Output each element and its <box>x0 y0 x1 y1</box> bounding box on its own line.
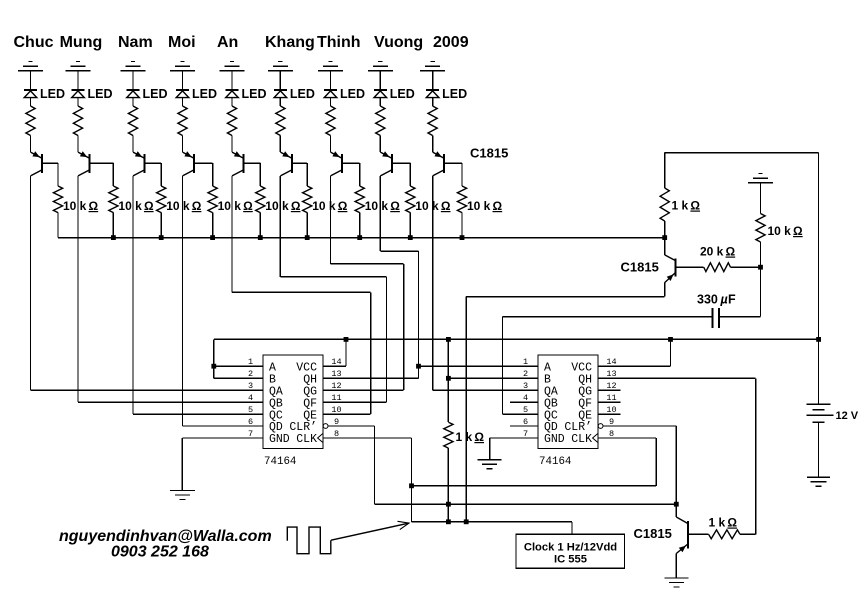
wire resistor to transistor Q3 <box>132 136 134 153</box>
wire resistor to transistor Q6 <box>279 136 281 153</box>
resistor 10k base channel 4 <box>208 186 217 213</box>
wire power to LED D3 <box>132 71 134 90</box>
svg-text:VCC: VCC <box>296 361 317 374</box>
wire resistor to bus channel 9 <box>461 213 463 238</box>
wire base Q9 to resistor <box>444 163 462 186</box>
label 10k channel 2 <box>118 199 154 213</box>
wire LED to resistor channel 2 <box>77 98 79 106</box>
svg-text:1 kΩ: 1 kΩ <box>456 430 485 444</box>
svg-text:10 kΩ: 10 kΩ <box>265 199 301 213</box>
wire collector Q1 to IC1 QA <box>31 176 264 390</box>
resistor R11 1k pullup <box>660 153 669 238</box>
label C1815 Q9 <box>470 146 508 161</box>
wire LED to resistor channel 7 <box>330 98 332 106</box>
svg-text:20 kΩ: 20 kΩ <box>700 245 736 259</box>
svg-text:11: 11 <box>331 393 341 403</box>
node label Vuong <box>374 34 423 51</box>
wire resistor to bus channel 3 <box>160 213 162 238</box>
wire resistor to bus channel 6 <box>306 213 308 238</box>
svg-text:3: 3 <box>248 381 253 391</box>
wire base Q7 to resistor <box>342 163 360 186</box>
resistor 10k base channel 6 <box>303 186 312 213</box>
wire top supply line <box>665 153 819 405</box>
resistor series channel 8 <box>376 106 385 136</box>
svg-text:2009: 2009 <box>433 34 469 51</box>
wire IC2 VCC to rail <box>598 339 671 366</box>
annotation arrow to clock input <box>331 521 409 540</box>
resistor 10k base channel 1 <box>53 186 62 213</box>
label 10k channel 8 <box>415 199 451 213</box>
svg-text:1 kΩ: 1 kΩ <box>709 516 738 530</box>
power symbol channel 3 <box>121 62 146 71</box>
wire clock input net <box>412 519 573 524</box>
resistor 10k base channel 7 <box>355 186 364 213</box>
svg-text:10 kΩ: 10 kΩ <box>166 199 202 213</box>
wire LED to resistor channel 4 <box>182 98 184 106</box>
node label Thinh <box>317 34 361 51</box>
author phone text <box>111 544 209 561</box>
LED D2 <box>72 90 85 98</box>
svg-text:Thinh: Thinh <box>317 34 361 51</box>
wire IC1 CLR to clock net <box>328 426 375 504</box>
wire resistor to transistor Q5 <box>231 136 233 153</box>
svg-text:10 kΩ: 10 kΩ <box>365 199 401 213</box>
resistor R13 10k <box>756 183 765 268</box>
svg-text:330: 330 <box>697 293 718 307</box>
wire stub IC2 QD <box>510 425 538 427</box>
svg-text:Moi: Moi <box>168 34 196 51</box>
wire base Q2 to resistor <box>90 163 114 186</box>
LED label D6 <box>290 87 315 101</box>
node label Chuc <box>14 34 54 51</box>
svg-text:0903 252 168: 0903 252 168 <box>111 544 209 561</box>
wire base Q1 to resistor <box>42 163 58 186</box>
wire base Q8 to resistor <box>392 163 411 186</box>
transistor Q3 <box>133 151 145 176</box>
LED label D4 <box>192 87 217 101</box>
wire resistor to bus channel 2 <box>112 213 114 238</box>
wire Q10 base to 20k <box>676 266 704 268</box>
wire power to LED D5 <box>231 71 233 90</box>
power symbol channel 1 <box>18 62 43 71</box>
power symbol channel 9 <box>420 62 445 71</box>
label R13 10k <box>768 224 804 238</box>
ground battery <box>807 477 830 486</box>
svg-text:2: 2 <box>248 369 253 379</box>
wire junction to capacitor <box>719 267 761 316</box>
wire stub IC2 QF <box>598 401 621 403</box>
svg-text:10 kΩ: 10 kΩ <box>218 199 254 213</box>
power symbol channel 7 <box>318 62 343 71</box>
wire IC1 CLK to clock net <box>323 438 414 522</box>
svg-text:1: 1 <box>248 357 253 367</box>
wire LED to resistor channel 1 <box>30 98 32 106</box>
wire IC2 B to rail via 1k tap <box>446 376 538 381</box>
wire stub IC2 QB <box>510 401 538 403</box>
wire rail to IC1 A B <box>211 339 263 378</box>
LED D5 <box>226 90 239 98</box>
svg-text:GND: GND <box>269 433 290 446</box>
svg-text:LED: LED <box>242 87 267 101</box>
transistor Q7 <box>331 151 343 176</box>
wire resistor to transistor Q8 <box>379 136 381 153</box>
wire resistor to transistor Q2 <box>77 136 79 153</box>
wire clock box feed <box>571 522 573 534</box>
transistor Q6 <box>280 151 292 176</box>
resistor series channel 6 <box>276 106 285 136</box>
svg-text:6: 6 <box>248 417 253 427</box>
svg-text:LED: LED <box>40 87 65 101</box>
clock source box <box>516 534 625 568</box>
LED D9 <box>426 90 439 98</box>
LED label D5 <box>242 87 267 101</box>
transistor Q2 <box>78 151 90 176</box>
svg-text:CLK: CLK <box>296 433 317 446</box>
wire LED to resistor channel 3 <box>132 98 134 106</box>
wire power to LED D9 <box>432 71 434 90</box>
node label Moi <box>168 34 196 51</box>
wire resistor to transistor Q1 <box>30 136 32 153</box>
wire capacitor to IC2 QC <box>503 316 713 318</box>
wire stub IC2 QE <box>598 413 621 415</box>
wire base Q6 to resistor <box>292 163 307 186</box>
transistor Q8 <box>380 151 392 176</box>
LED D4 <box>176 90 189 98</box>
svg-text:Mung: Mung <box>60 34 103 51</box>
power symbol right <box>748 174 773 183</box>
label 10k channel 4 <box>218 199 254 213</box>
transistor Q5 <box>232 151 244 176</box>
svg-text:GND: GND <box>544 433 565 446</box>
svg-text:LED: LED <box>340 87 365 101</box>
resistor 10k base channel 5 <box>256 186 265 213</box>
wire 1k to IC2 QH line <box>740 533 756 535</box>
resistor series channel 9 <box>428 106 437 136</box>
power symbol channel 5 <box>220 62 245 71</box>
svg-text:F: F <box>728 293 736 307</box>
wire IC2 CLK to clock net <box>598 438 656 486</box>
wire IC1 QH to IC2 A <box>416 364 538 369</box>
resistor 10k base channel 8 <box>406 186 415 213</box>
svg-text:LED: LED <box>290 87 315 101</box>
wire collector Q4 to IC1 QD <box>183 176 264 426</box>
wire base Q4 to resistor <box>194 163 213 186</box>
LED label D2 <box>88 87 113 101</box>
wire base Q3 to resistor <box>145 163 162 186</box>
wire Q10 emitter to clock input <box>466 297 665 522</box>
resistor R10 1k <box>444 339 453 521</box>
svg-text:10 kΩ: 10 kΩ <box>467 199 503 213</box>
wire collector Q2 to IC1 QB <box>78 176 263 402</box>
wire stub IC2 QG <box>598 389 621 391</box>
svg-text:Chuc: Chuc <box>14 34 54 51</box>
power symbol channel 4 <box>170 62 195 71</box>
wire resistor to bus channel 7 <box>359 213 361 238</box>
transistor Q1 <box>31 151 43 176</box>
svg-text:LED: LED <box>88 87 113 101</box>
resistor 10k base channel 3 <box>157 186 166 213</box>
wire resistor to transistor Q9 <box>432 136 434 153</box>
LED label D7 <box>340 87 365 101</box>
wire base Q5 to resistor <box>244 163 261 186</box>
svg-text:10 kΩ: 10 kΩ <box>118 199 154 213</box>
resistor 10k base channel 2 <box>109 186 118 213</box>
resistor series channel 1 <box>26 106 35 136</box>
wire IC2 CLR to clock net <box>603 426 676 504</box>
LED D1 <box>24 90 37 98</box>
svg-text:74164: 74164 <box>539 456 571 468</box>
transistor Q4 <box>183 151 195 176</box>
svg-text:1: 1 <box>523 357 528 367</box>
power symbol channel 6 <box>268 62 293 71</box>
wire power to LED D8 <box>379 71 381 90</box>
node label An <box>217 34 238 51</box>
svg-text:3: 3 <box>523 381 528 391</box>
wire collector Q6 to IC1 QF <box>280 176 386 402</box>
wire collector Q7 to IC1 QG <box>323 176 404 390</box>
label 10k channel 1 <box>63 199 99 213</box>
LED D8 <box>374 90 387 98</box>
resistor series channel 4 <box>178 106 187 136</box>
svg-text:A: A <box>544 361 551 374</box>
label R10 1k <box>456 430 485 444</box>
LED D3 <box>127 90 140 98</box>
wire LED to resistor channel 6 <box>279 98 281 106</box>
label Q10 C1815 <box>621 260 659 275</box>
svg-text:An: An <box>217 34 238 51</box>
label 10k channel 3 <box>166 199 202 213</box>
label 10k channel 7 <box>365 199 401 213</box>
capacitor C1 330uF <box>712 308 719 328</box>
wire VCC rail <box>214 337 821 342</box>
svg-text:74164: 74164 <box>264 456 296 468</box>
wire resistor to transistor Q4 <box>182 136 184 153</box>
wire LED to resistor channel 5 <box>231 98 233 106</box>
wire collector Q9 to IC2 QA <box>433 176 538 390</box>
svg-text:10 kΩ: 10 kΩ <box>768 224 804 238</box>
power symbol channel 8 <box>368 62 393 71</box>
wire power to LED D4 <box>182 71 184 90</box>
LED label D1 <box>40 87 65 101</box>
wire resistor to bus channel 5 <box>259 213 261 238</box>
label R14 1k <box>709 516 738 530</box>
wire power to LED D7 <box>330 71 332 90</box>
label 10k channel 9 <box>467 199 503 213</box>
power symbol channel 2 <box>66 62 91 71</box>
svg-text:CLK: CLK <box>571 433 592 446</box>
svg-text:12: 12 <box>331 381 341 391</box>
resistor R14 1k <box>709 530 740 539</box>
LED label D3 <box>143 87 168 101</box>
svg-text:Nam: Nam <box>118 34 153 51</box>
wire Q11 base to 1k <box>688 533 709 535</box>
resistor 10k base channel 9 <box>457 186 466 213</box>
svg-text:VCC: VCC <box>571 361 592 374</box>
wire IC2 QC to coupling cap <box>503 317 539 415</box>
resistor series channel 7 <box>326 106 335 136</box>
label R11 1k <box>672 199 701 213</box>
label clock box <box>524 542 617 566</box>
wire power to LED D2 <box>77 71 79 90</box>
node label Nam <box>118 34 153 51</box>
resistor series channel 2 <box>73 106 82 136</box>
wire IC2 QH to Q11 base resistor <box>598 378 756 534</box>
wire LED to resistor channel 9 <box>432 98 434 106</box>
svg-text:C1815: C1815 <box>621 260 659 275</box>
svg-text:LED: LED <box>143 87 168 101</box>
wire collector Q3 to IC1 QC <box>133 176 263 414</box>
wire power to LED D6 <box>279 71 281 90</box>
svg-text:Khang: Khang <box>265 34 315 51</box>
op-amp U2 74164 shift register <box>523 355 617 468</box>
wire clock net CLK <box>412 485 657 487</box>
label C1 330uF <box>697 293 736 307</box>
svg-text:A: A <box>269 361 276 374</box>
svg-text:C1815: C1815 <box>634 526 672 541</box>
wire resistor to transistor Q7 <box>330 136 332 153</box>
wire IC1 VCC to rail <box>323 339 346 366</box>
LED D7 <box>324 90 337 98</box>
author email text <box>59 528 272 545</box>
svg-text:LED: LED <box>442 87 467 101</box>
label 10k channel 5 <box>265 199 301 213</box>
battery 12V <box>807 404 834 477</box>
ground IC1 GND <box>170 438 263 500</box>
wire 20k to junction <box>731 265 763 270</box>
clock waveform symbol <box>287 527 331 554</box>
ground IC2 GND <box>478 438 538 469</box>
transistor Q10 C1815 <box>665 238 676 297</box>
label battery 12V <box>836 410 859 422</box>
wire resistor to bus channel 8 <box>409 213 411 238</box>
svg-text:5: 5 <box>248 405 253 415</box>
svg-text:4: 4 <box>248 393 253 403</box>
svg-text:1 kΩ: 1 kΩ <box>672 199 701 213</box>
wire clock net CLR <box>375 502 679 507</box>
svg-text:nguyendinhvan@Walla.com: nguyendinhvan@Walla.com <box>59 528 272 545</box>
label Q11 C1815 <box>634 526 672 541</box>
wire collector Q8 to IC1 QH <box>323 176 419 378</box>
wire power to LED D1 <box>30 71 32 90</box>
svg-text:Clock 1 Hz/12Vdd: Clock 1 Hz/12Vdd <box>524 542 617 554</box>
LED D6 <box>274 90 287 98</box>
wire base bus <box>58 235 667 240</box>
svg-text:C1815: C1815 <box>470 146 508 161</box>
LED label D8 <box>390 87 415 101</box>
label 10k channel 6 <box>312 199 348 213</box>
svg-text:10: 10 <box>331 405 341 415</box>
svg-text:10 kΩ: 10 kΩ <box>63 199 99 213</box>
transistor Q11 C1815 <box>676 504 688 578</box>
svg-text:µ: µ <box>720 293 728 307</box>
resistor series channel 5 <box>227 106 236 136</box>
svg-text:IC 555: IC 555 <box>554 554 587 566</box>
wire resistor to bus channel 1 <box>57 213 59 238</box>
wire collector Q5 to IC1 QE <box>232 176 371 414</box>
wire LED to resistor channel 8 <box>379 98 381 106</box>
node label Mung <box>60 34 103 51</box>
label R12 20k <box>700 245 736 259</box>
svg-text:LED: LED <box>192 87 217 101</box>
svg-text:12 V: 12 V <box>836 410 859 422</box>
LED label D9 <box>442 87 467 101</box>
wire resistor to bus channel 4 <box>212 213 214 238</box>
node label 2009 <box>433 34 469 51</box>
svg-text:13: 13 <box>331 369 341 379</box>
svg-text:LED: LED <box>390 87 415 101</box>
op-amp U1 74164 shift register <box>248 355 342 468</box>
resistor R12 20k <box>704 263 731 272</box>
resistor series channel 3 <box>128 106 137 136</box>
node label Khang <box>265 34 315 51</box>
svg-text:Vuong: Vuong <box>374 34 423 51</box>
transistor Q9 <box>433 151 445 176</box>
ground Q11 emitter <box>664 578 688 587</box>
